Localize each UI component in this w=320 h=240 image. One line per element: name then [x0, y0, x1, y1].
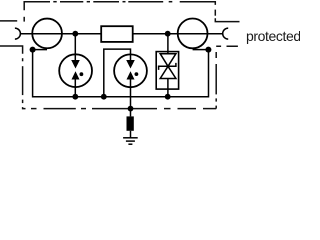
- GDT1 up arrowhead: [72, 71, 80, 79]
- wire GDT2 bottom / earth conductor: [130, 79, 132, 116]
- junction dot on main wire at GDT1: [72, 31, 78, 37]
- wire main line: [20, 33, 222, 35]
- junction dot bus TVS: [165, 94, 171, 100]
- enclosure border right port top line: [215, 18, 239, 21]
- gas discharge tube F1 circle: [59, 54, 92, 87]
- wire GDT1 bottom shaft: [74, 79, 76, 97]
- enclosure border right wall lower + port bottom (dash-dot): [216, 46, 238, 108]
- wire GDT2 top L-link: [104, 49, 131, 97]
- GDT2 down arrowhead: [126, 60, 135, 69]
- terminal arc right: [223, 28, 228, 39]
- GDT2 gas dot: [135, 72, 139, 76]
- enclosure border left port top line: [0, 20, 17, 22]
- enclosure border left wall upper dash: [23, 17, 25, 22]
- label protected: [246, 28, 301, 44]
- junction dot bus L-link: [101, 94, 107, 100]
- wire left tangent branch: [33, 49, 47, 51]
- GDT2 up arrowhead: [127, 71, 135, 79]
- junction dot bus GDT1: [72, 94, 78, 100]
- wire earth stub: [130, 131, 132, 138]
- wire GDT1 top shaft: [74, 34, 76, 61]
- wire TVS bottom shaft: [167, 79, 169, 97]
- enclosure border bottom (dash-dot): [31, 108, 216, 110]
- GDT1 gas dot: [80, 72, 84, 76]
- TVS bottom triangle: [160, 66, 176, 78]
- gas discharge tube F2 circle: [114, 54, 147, 87]
- junction dot on main wire at TVS: [165, 31, 171, 37]
- junction dot left tangent: [30, 47, 36, 53]
- isolating element right circle: [178, 19, 208, 49]
- ground symbol line 3: [128, 143, 132, 145]
- suppressor diode box: [156, 52, 178, 90]
- junction dot right tangent: [205, 47, 211, 53]
- wire right tangent branch: [193, 49, 209, 51]
- terminal arc left: [15, 28, 20, 39]
- resistor R: [101, 26, 133, 42]
- enclosure border left port bottom + wall (dash-dot): [0, 46, 26, 109]
- TVS zener bar: [159, 63, 176, 70]
- earth terminal block: [127, 116, 134, 130]
- GDT1 down arrowhead: [71, 60, 80, 69]
- wire TVS top shaft: [167, 34, 169, 54]
- TVS top triangle: [160, 54, 176, 67]
- junction dot earth on border: [128, 106, 134, 112]
- isolating element left circle: [32, 19, 62, 49]
- wire lower loop (left drop, bus, right drop): [33, 50, 209, 97]
- enclosure border top (dash-dot): [24, 2, 215, 16]
- ground symbol line 2: [126, 140, 135, 142]
- ground symbol line 1: [123, 137, 138, 139]
